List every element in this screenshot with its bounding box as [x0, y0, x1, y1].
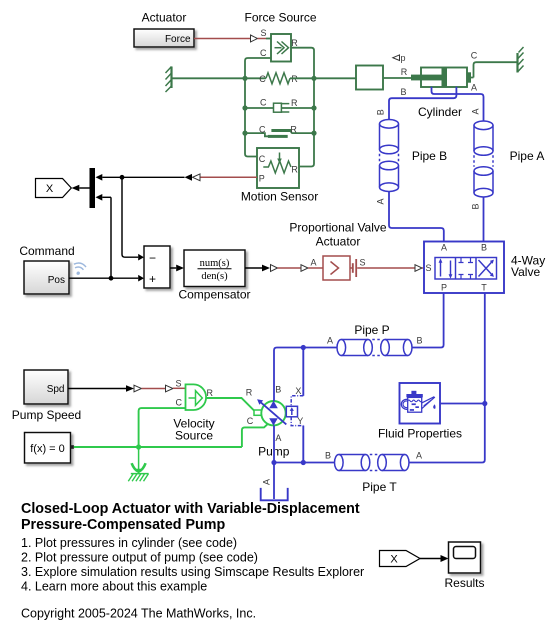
svg-text:B: B: [416, 336, 422, 346]
junction nodes on rails: [242, 76, 316, 136]
wire mux output to goto tag: [72, 185, 90, 192]
svg-text:+: +: [149, 272, 156, 286]
svg-text:B: B: [376, 109, 386, 115]
pipe T block: [335, 455, 410, 471]
pump shaft: [254, 410, 264, 415]
svg-text:Command: Command: [19, 244, 74, 258]
block Pump: [257, 385, 286, 444]
svg-text:Pipe A: Pipe A: [510, 149, 545, 163]
svg-text:p: p: [400, 53, 405, 63]
wire Force to Force Source S: [194, 28, 271, 42]
svg-text:R: R: [207, 388, 214, 398]
svg-text:Results: Results: [444, 576, 484, 590]
block Compensator: [184, 250, 245, 287]
tunable parameter icon: [72, 262, 87, 276]
svg-text:Valve: Valve: [511, 265, 540, 279]
wire cylinder B to pipe B: [389, 87, 456, 120]
list annotation: [21, 536, 364, 594]
svg-text:A: A: [416, 451, 422, 461]
svg-text:A: A: [261, 479, 271, 485]
block Cylinder: [411, 68, 471, 88]
svg-text:A: A: [275, 433, 281, 443]
wire cylinder A to pipe A: [432, 83, 484, 122]
svg-text:A: A: [471, 83, 477, 93]
wire X to Results: [420, 555, 449, 562]
block Motion Sensor: [257, 148, 299, 188]
svg-text:B: B: [481, 243, 487, 253]
svg-text:C: C: [259, 124, 266, 134]
wire mass to cylinder rod: [383, 67, 412, 78]
svg-text:Proportional Valve: Proportional Valve: [289, 221, 386, 235]
block Velocity Source: [175, 379, 213, 411]
svg-text:Actuator: Actuator: [316, 235, 361, 249]
wire rail to pump C: [242, 416, 267, 447]
svg-text:Pipe T: Pipe T: [362, 480, 397, 494]
svg-text:−: −: [149, 251, 156, 265]
svg-text:S: S: [359, 258, 365, 268]
svg-text:A: A: [376, 198, 386, 204]
right rail wire: [299, 75, 314, 167]
from tag X: [380, 551, 421, 567]
svg-text:S: S: [425, 263, 431, 273]
svg-text:R: R: [401, 67, 408, 77]
block Fluid Properties: [12, 345, 488, 621]
spring (translational spring branch): [259, 73, 298, 84]
svg-text:Copyright 2005-2024 The MathWo: Copyright 2005-2024 The MathWorks, Inc.: [21, 607, 256, 621]
svg-text:C: C: [260, 48, 267, 58]
svg-text:Closed-Loop Actuator with Vari: Closed-Loop Actuator with Variable-Displ…: [21, 501, 360, 517]
damper branch: [245, 98, 314, 113]
svg-text:Pipe P: Pipe P: [354, 323, 389, 337]
wire valve T rail: [409, 293, 485, 463]
svg-text:P: P: [441, 283, 447, 293]
node on command signal: [109, 276, 114, 281]
wire Spd to Velocity Source S: [68, 385, 186, 392]
pressure port marker p: [393, 53, 406, 63]
wire wall to node: [172, 77, 246, 79]
svg-text:R: R: [291, 98, 298, 108]
rotational reference ground: [128, 447, 148, 481]
svg-text:A: A: [310, 258, 316, 268]
block Pos (Command source): [24, 261, 69, 294]
svg-text:P: P: [259, 173, 265, 183]
node on T rail: [482, 401, 487, 406]
wire pipe A to valve B: [483, 197, 485, 242]
svg-text:Source: Source: [175, 429, 213, 443]
svg-text:C: C: [471, 51, 478, 61]
svg-text:Compensator: Compensator: [178, 288, 250, 302]
svg-text:Fluid Properties: Fluid Properties: [378, 427, 462, 441]
friction branch: [245, 124, 314, 138]
svg-text:B: B: [400, 87, 406, 97]
goto tag X: [36, 179, 72, 198]
wire pump B to pipe P: [274, 348, 337, 402]
wire pipe B to valve A: [389, 192, 444, 242]
wire Motion Sensor P output (PS to signal): [96, 174, 258, 181]
svg-text:A: A: [471, 108, 481, 114]
svg-text:Force: Force: [165, 34, 191, 45]
mechanical reference wall left: [166, 67, 172, 93]
svg-text:den(s): den(s): [201, 271, 228, 282]
block f(x)=0 solver: [25, 433, 74, 464]
wire Velocity Source R to pump shaft: [206, 388, 255, 412]
wire spring R to right node: [290, 77, 314, 79]
svg-text:1. Plot pressures in cylinder: 1. Plot pressures in cylinder (see code): [21, 536, 237, 550]
block Force source (Actuator): [134, 29, 194, 47]
svg-text:R: R: [291, 38, 298, 48]
block Results scope: [449, 542, 481, 573]
sum block: [144, 246, 170, 288]
block Proportional Valve Actuator: [323, 256, 366, 280]
wire sum to Compensator: [170, 265, 184, 272]
svg-text:Pipe B: Pipe B: [412, 149, 447, 163]
label Velocity Source: [173, 417, 214, 443]
svg-text:Y: Y: [297, 416, 303, 426]
svg-text:f(x) = 0: f(x) = 0: [30, 443, 65, 455]
svg-text:Pump Speed: Pump Speed: [12, 408, 81, 422]
svg-text:B: B: [275, 385, 281, 395]
svg-text:S: S: [260, 28, 266, 38]
svg-text:4. Learn more about this examp: 4. Learn more about this example: [21, 580, 207, 594]
svg-text:2. Plot pressure output of pum: 2. Plot pressure output of pump (see cod…: [21, 551, 258, 565]
wire right node to mass: [314, 77, 356, 79]
wire Velocity Source C down: [139, 408, 186, 447]
svg-text:R: R: [246, 388, 253, 398]
pipe T port labels: [325, 451, 422, 461]
pipe B block: [380, 120, 399, 192]
svg-text:R: R: [290, 124, 297, 134]
svg-text:S: S: [175, 379, 181, 389]
pipe B port labels: [376, 109, 386, 204]
svg-text:Actuator: Actuator: [142, 11, 187, 25]
svg-text:Motion Sensor: Motion Sensor: [241, 190, 318, 204]
wire pump A to pipe T: [274, 462, 335, 464]
svg-text:Pressure-Compensated Pump: Pressure-Compensated Pump: [21, 517, 225, 533]
block mass: [356, 66, 383, 90]
svg-text:B: B: [471, 203, 481, 209]
wire cylinder C to wall: [471, 51, 517, 78]
wire pump A down: [273, 425, 275, 499]
wire pump Y control: [291, 416, 303, 463]
wire command to mux lower input: [96, 194, 112, 278]
mechanical reference wall right: [518, 47, 524, 73]
wire Compensator output (signal to PS): [245, 258, 323, 272]
svg-text:C: C: [259, 154, 266, 164]
svg-text:C: C: [260, 98, 267, 108]
pipe P block: [337, 340, 412, 356]
svg-text:C: C: [259, 74, 266, 84]
wire Pos to sum plus input: [69, 275, 144, 282]
block 4-Way Valve: [424, 242, 504, 294]
pressure compensator port box: [286, 406, 297, 417]
svg-text:3. Explore simulation results: 3. Explore simulation results using Sims…: [21, 565, 364, 579]
title annotation: [21, 501, 360, 533]
wire node to spring C: [245, 77, 266, 79]
mux block: [90, 168, 96, 208]
wire valve P to pipe P: [412, 293, 444, 348]
wire pump X control: [291, 348, 303, 407]
svg-text:B: B: [325, 451, 331, 461]
block Force Source: [260, 34, 298, 62]
svg-text:C: C: [176, 397, 183, 407]
svg-text:X: X: [390, 553, 398, 565]
label Proportional Valve Actuator: [289, 221, 386, 249]
svg-text:Pos: Pos: [48, 275, 65, 286]
svg-text:T: T: [481, 283, 487, 293]
block Spd (Pump Speed source): [24, 370, 68, 404]
wire solver to rotational rail: [74, 446, 242, 448]
left rail wire: [245, 75, 257, 157]
pipe A block: [474, 121, 493, 197]
svg-text:X: X: [46, 183, 54, 195]
wire Prop Valve Actuator S to valve: [357, 265, 424, 272]
svg-text:C: C: [247, 416, 254, 426]
svg-text:Spd: Spd: [47, 384, 65, 395]
svg-text:num(s): num(s): [200, 258, 230, 269]
node on rotational rail: [136, 444, 141, 449]
svg-text:A: A: [441, 243, 447, 253]
wire Force Source C to left rail: [245, 58, 271, 75]
svg-text:Cylinder: Cylinder: [418, 105, 462, 119]
svg-text:Force Source: Force Source: [244, 11, 316, 25]
tank reference: [261, 479, 288, 500]
svg-text:A: A: [327, 336, 333, 346]
nodes on pump A / pipe T line: [271, 460, 306, 465]
svg-text:X: X: [295, 386, 301, 396]
node pipe P branch: [301, 345, 306, 350]
pipe A port labels: [471, 108, 481, 209]
pipe P port labels: [327, 336, 423, 346]
wire Fluid Properties to T rail: [440, 403, 485, 405]
wire node to sum minus input: [122, 177, 144, 260]
node on position signal: [120, 175, 125, 180]
svg-text:R: R: [291, 165, 298, 175]
label 4-Way Valve: [511, 254, 545, 280]
wire Force Source R to right rail: [291, 48, 314, 75]
